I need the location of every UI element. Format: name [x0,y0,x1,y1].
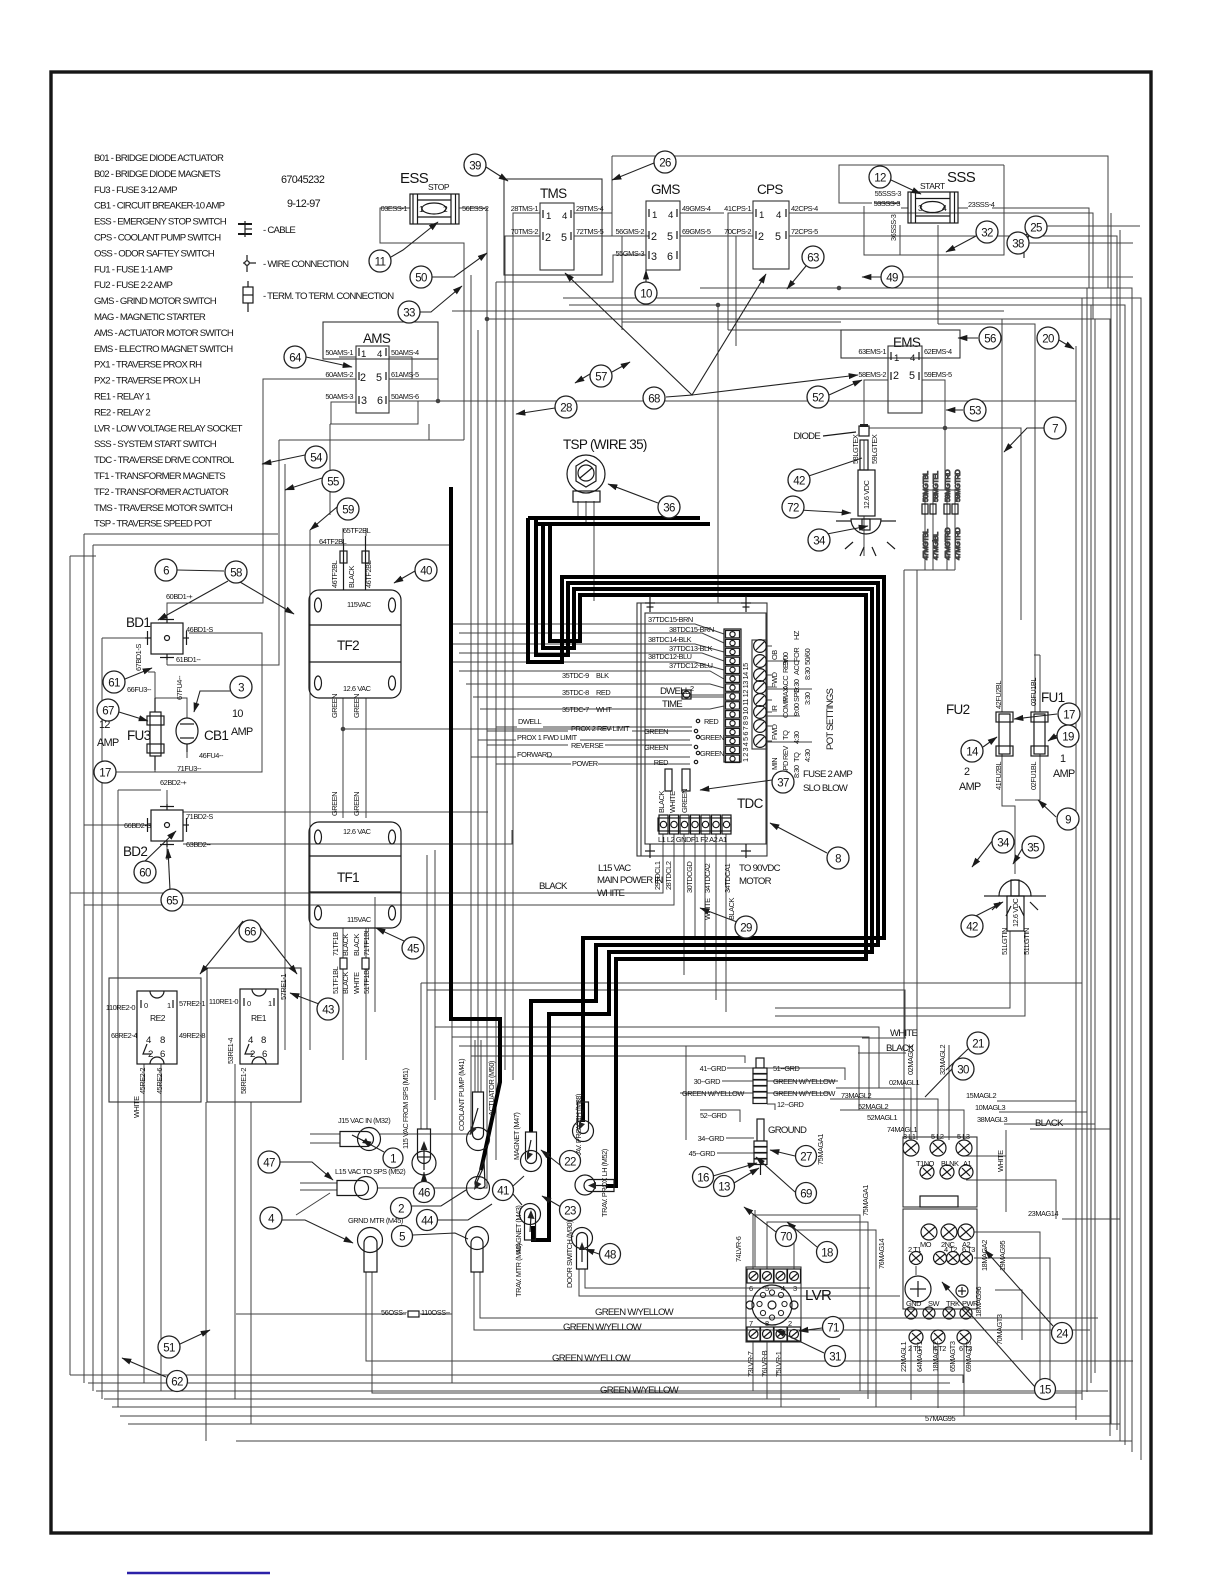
svg-text:42: 42 [966,922,978,934]
svg-text:54: 54 [310,453,323,465]
svg-text:66BD2-S: 66BD2-S [124,821,151,830]
svg-text:69GMS-5: 69GMS-5 [682,227,711,236]
svg-text:MAIN POWER IN: MAIN POWER IN [597,875,663,886]
svg-text:45RE2-2: 45RE2-2 [138,1068,147,1094]
svg-text:GREEN: GREEN [352,694,361,718]
fuse FU1 [1029,678,1075,790]
svg-text:FU3 - FUSE 3-12 AMP: FU3 - FUSE 3-12 AMP [94,185,177,196]
svg-text:POT SETTINGS: POT SETTINGS [825,688,836,750]
TF2 wires [341,528,612,1060]
svg-text:59EMS-5: 59EMS-5 [924,370,952,379]
svg-text:65TF2BL: 65TF2BL [343,526,371,535]
svg-text:22MAGL1: 22MAGL1 [899,1342,908,1372]
svg-text:64TF2BL: 64TF2BL [319,537,347,546]
svg-text:31: 31 [829,1352,841,1364]
switch EMS [841,330,960,413]
cable TSP feed [528,516,700,520]
svg-text:42: 42 [793,476,805,488]
svg-text:6: 6 [377,395,383,407]
svg-text:51TF1BL: 51TF1BL [331,966,340,994]
svg-text:57RE1-1: 57RE1-1 [279,974,288,1000]
svg-text:38TDC15-BRN: 38TDC15-BRN [669,625,714,634]
svg-text:BLACK: BLACK [341,933,350,956]
svg-text:61AMS-5: 61AMS-5 [391,370,419,379]
svg-text:DWELL: DWELL [518,717,542,726]
svg-text:19: 19 [1062,732,1074,744]
relay socket LVR [734,1236,832,1377]
svg-text:110RE1-0: 110RE1-0 [209,997,238,1006]
svg-text:73MAGL2: 73MAGL2 [841,1091,871,1100]
svg-text:- TERM. TO TERM. CONNECTION: - TERM. TO TERM. CONNECTION [263,291,394,302]
svg-text:5: 5 [909,370,915,382]
svg-text:56GMS-2: 56GMS-2 [616,227,645,236]
svg-text:35TDC-7: 35TDC-7 [562,705,589,714]
switch GMS [616,182,711,270]
wire CPS leads [728,213,753,330]
svg-text:24: 24 [1056,1329,1069,1341]
svg-text:41CPS-1: 41CPS-1 [724,204,751,213]
svg-text:1: 1 [546,211,551,222]
svg-text:DIODE: DIODE [793,431,820,442]
svg-text:69MAGT3: 69MAGT3 [964,1341,973,1372]
svg-text:GRND MTR (M45): GRND MTR (M45) [348,1216,403,1225]
svg-text:BLNK: BLNK [941,1159,959,1168]
svg-text:GREEN: GREEN [644,727,668,736]
svg-text:POWER: POWER [572,759,598,768]
svg-text:RED: RED [596,688,610,697]
svg-text:CB1 - CIRCUIT BREAKER-10 AMP: CB1 - CIRCUIT BREAKER-10 AMP [94,201,225,212]
wire ESS leads [380,208,464,440]
svg-text:47MGlBL: 47MGlBL [931,532,940,560]
svg-text:35: 35 [1027,843,1039,855]
bottom terminal strip [658,815,731,834]
svg-text:B02 - BRIDGE DIODE MAGNETS: B02 - BRIDGE DIODE MAGNETS [94,169,220,180]
svg-text:1: 1 [390,1154,396,1166]
svg-text:46: 46 [418,1188,430,1200]
svg-text:20: 20 [1042,334,1054,346]
svg-text:69: 69 [800,1189,812,1201]
svg-text:30: 30 [957,1065,969,1077]
transformer TF1 [309,792,401,994]
svg-text:38TDC14-BLK: 38TDC14-BLK [648,635,692,644]
svg-text:TQ: TQ [792,752,801,762]
diode under EMS [793,424,869,442]
svg-text:67045232: 67045232 [281,174,325,186]
svg-text:TF1 - TRANSFORMER MAGNETS: TF1 - TRANSFORMER MAGNETS [94,471,225,482]
svg-text:2: 2 [758,231,764,243]
TDC control TDC [517,596,852,920]
svg-text:TF1: TF1 [337,870,359,885]
svg-text:GREEN: GREEN [352,792,361,816]
svg-text:70TMS-2: 70TMS-2 [511,227,539,236]
svg-text:41: 41 [497,1186,509,1198]
svg-text:47: 47 [263,1158,275,1170]
svg-text:GREEN W/YELLOW: GREEN W/YELLOW [773,1077,835,1086]
svg-text:55: 55 [327,477,339,489]
svg-text:18MAGA2: 18MAGA2 [980,1240,989,1271]
svg-text:47MGTBL: 47MGTBL [921,529,930,560]
svg-text:WHITE: WHITE [597,888,625,899]
svg-text:TIME: TIME [662,699,682,710]
svg-text:72: 72 [787,503,799,515]
svg-text:60: 60 [139,868,151,880]
svg-text:FORWARD: FORWARD [517,750,552,759]
external control labels [517,717,630,768]
svg-text:1: 1 [759,210,764,221]
svg-text:GREEN: GREEN [680,789,689,813]
svg-text:55GMS-3: 55GMS-3 [616,249,645,258]
svg-text:65: 65 [166,896,178,908]
svg-text:50AMS-3: 50AMS-3 [325,392,353,401]
svg-text:58MGTEL: 58MGTEL [931,471,940,502]
lamp1 wires [863,516,865,556]
svg-text:59MGTRD: 59MGTRD [953,470,962,502]
svg-text:3: 3 [793,1284,797,1293]
svg-text:TMS - TRAVERSE MOTOR SWITCH: TMS - TRAVERSE MOTOR SWITCH [94,503,233,514]
svg-text:63: 63 [807,253,819,265]
svg-text:59LGTEX: 59LGTEX [870,434,879,464]
FU1 FU2 wires [775,655,1040,1016]
svg-text:GREEN W/YELLOW: GREEN W/YELLOW [552,1353,632,1364]
svg-text:71TF1B: 71TF1B [331,932,340,956]
svg-text:WHITE: WHITE [890,1028,918,1039]
svg-text:45--GRD: 45--GRD [689,1149,716,1158]
svg-text:3: 3 [361,395,367,407]
svg-text:DOOR SWITCH (M30): DOOR SWITCH (M30) [565,1221,574,1288]
svg-text:GREEN W/YELLOW: GREEN W/YELLOW [600,1385,680,1396]
svg-text:- WIRE CONNECTION: - WIRE CONNECTION [263,259,349,270]
svg-text:TRAV. MTR (M40): TRAV. MTR (M40) [514,1244,523,1297]
pot column [752,640,767,749]
svg-text:26: 26 [659,158,671,170]
svg-text:TRAV. PROX LH (M52): TRAV. PROX LH (M52) [600,1149,609,1217]
svg-text:TO 90VDC: TO 90VDC [739,863,781,874]
svg-text:4:30: 4:30 [792,731,801,744]
svg-text:41FU2BL: 41FU2BL [994,762,1003,790]
long right buses [700,288,1132,1452]
connector 115 VAC FROM SPS (M51) [401,1068,436,1175]
svg-text:56: 56 [984,334,996,346]
svg-text:28TMS-1: 28TMS-1 [511,204,539,213]
svg-text:34: 34 [813,536,826,548]
svg-text:GROUND: GROUND [768,1125,807,1136]
svg-text:GREEN W/YELLOW: GREEN W/YELLOW [563,1322,643,1333]
svg-text:HZ: HZ [792,630,801,640]
svg-text:30--GRD: 30--GRD [694,1077,721,1086]
svg-text:58: 58 [230,568,242,580]
svg-text:02MAGL1: 02MAGL1 [906,1045,915,1075]
svg-text:18MAGT2: 18MAGT2 [931,1341,940,1372]
svg-text:1: 1 [167,1001,171,1010]
svg-text:50AMS-4: 50AMS-4 [391,348,419,357]
svg-text:WHITE: WHITE [996,1150,1005,1172]
svg-text:03FU1BL: 03FU1BL [1029,678,1038,706]
svg-text:2: 2 [690,684,694,693]
svg-text:43: 43 [322,1005,334,1017]
svg-text:6 T3: 6 T3 [962,1245,975,1254]
circuit breaker CB1 [176,708,253,760]
svg-text:10: 10 [232,708,243,720]
pot settings labels (rotated) [770,630,836,778]
svg-text:10MAGL3: 10MAGL3 [975,1103,1005,1112]
svg-text:WHT: WHT [596,705,612,714]
svg-text:70: 70 [780,1232,792,1244]
cable magnet M47 [531,518,878,1132]
svg-text:WHITE: WHITE [703,898,712,920]
wire connection legend symbol [243,255,256,272]
svg-text:FU3: FU3 [127,728,151,743]
svg-text:15MAGL2: 15MAGL2 [966,1091,996,1100]
svg-text:CPS - COOLANT PUMP SWITCH: CPS - COOLANT PUMP SWITCH [94,233,221,244]
switch SSS [874,169,995,241]
svg-text:57MAG95: 57MAG95 [925,1414,955,1423]
svg-text:FWD: FWD [770,672,779,688]
svg-text:64: 64 [289,353,302,365]
svg-text:12.6 VAC: 12.6 VAC [343,827,372,836]
svg-text:1 2 3 4 5 6 7 8 9 10 11 12 13: 1 2 3 4 5 6 7 8 9 10 11 12 13 14 15 [741,663,750,762]
svg-text:0: 0 [247,999,251,1008]
EMS wires [864,380,1021,1137]
potentiometer TSP [563,437,647,502]
svg-text:67BD1-S: 67BD1-S [134,644,143,671]
svg-text:37TDC12-BLU: 37TDC12-BLU [669,661,713,670]
svg-text:36: 36 [663,503,675,515]
svg-text:COOLANT PUMP (M41): COOLANT PUMP (M41) [457,1059,466,1131]
svg-text:MOTOR: MOTOR [739,876,772,887]
svg-text:A1: A1 [963,1159,971,1168]
svg-text:17: 17 [99,768,111,780]
svg-text:MIN: MIN [770,758,779,770]
svg-text:72TMS-5: 72TMS-5 [576,227,604,236]
LED indicators [644,717,724,767]
svg-text:115VAC: 115VAC [347,915,372,924]
svg-text:48: 48 [604,1250,616,1262]
svg-text:SW: SW [928,1299,939,1308]
svg-text:MAGNET (M47): MAGNET (M47) [512,1113,521,1160]
svg-text:50MGTBL: 50MGTBL [921,471,930,502]
switch AMS [323,322,438,413]
svg-text:GMS - GRIND MOTOR SWITCH: GMS - GRIND MOTOR SWITCH [94,296,217,307]
svg-text:32: 32 [981,228,993,240]
svg-text:SPD: SPD [792,688,801,702]
svg-text:49GMS-4: 49GMS-4 [682,204,711,213]
svg-text:GMS: GMS [651,182,680,197]
svg-text:6: 6 [667,251,673,263]
svg-text:FU2: FU2 [946,702,970,717]
svg-text:GREEN: GREEN [644,743,668,752]
svg-text:6: 6 [160,1049,165,1060]
svg-text:8:30: 8:30 [792,765,801,778]
svg-text:34TDCA1: 34TDCA1 [723,863,732,893]
svg-text:FUSE 2 AMP: FUSE 2 AMP [803,769,852,780]
connector TRAV. PROX LH (M52) [575,1149,614,1217]
svg-text:34TDCA2: 34TDCA2 [703,863,712,893]
svg-text:13: 13 [718,1182,730,1194]
svg-text:29: 29 [740,923,752,935]
svg-text:40: 40 [420,566,432,578]
connector TRAV. PROX RH (M38) [573,1094,594,1163]
svg-text:B01 - BRIDGE DIODE ACTUATOR: B01 - BRIDGE DIODE ACTUATOR [94,153,224,164]
svg-text:AMP: AMP [231,726,253,738]
svg-text:74LVR-6: 74LVR-6 [734,1236,743,1262]
svg-text:59MGTRD: 59MGTRD [943,470,952,502]
svg-text:34: 34 [997,838,1010,850]
svg-text:34--GRD: 34--GRD [698,1134,725,1143]
svg-text:71TF1BL: 71TF1BL [362,928,371,956]
svg-text:12.6 VDC: 12.6 VDC [1011,897,1020,927]
svg-text:TF2 - TRANSFORMER ACTUATOR: TF2 - TRANSFORMER ACTUATOR [94,487,229,498]
svg-text:SLO BLOW: SLO BLOW [803,783,849,794]
bus lines above MAG [421,850,1082,1140]
svg-text:60AMS-2: 60AMS-2 [325,370,353,379]
svg-text:PX1 - TRAVERSE PROX RH: PX1 - TRAVERSE PROX RH [94,360,202,371]
switch CPS [724,182,818,269]
svg-text:35TDC-9: 35TDC-9 [562,671,589,680]
svg-text:RE2: RE2 [150,1013,166,1023]
svg-text:52MAGL1: 52MAGL1 [867,1113,897,1122]
svg-text:76MAG14: 76MAG14 [877,1239,886,1269]
svg-text:66: 66 [244,927,256,939]
svg-text:MO: MO [920,1240,932,1249]
svg-text:23SSS-4: 23SSS-4 [968,200,995,209]
terminal strip vertical [724,629,750,763]
svg-text:68: 68 [648,394,660,406]
svg-text:TMS: TMS [540,186,567,201]
svg-text:5: 5 [399,1232,405,1244]
balloon leader arrows [119,163,1133,1387]
svg-text:65MAGT3: 65MAGT3 [948,1341,957,1372]
svg-text:8:30: 8:30 [803,667,812,680]
svg-text:REV: REV [781,659,790,673]
terminal to terminal legend symbol [243,281,253,312]
svg-text:4:30: 4:30 [803,749,812,762]
svg-text:71BD2-S: 71BD2-S [186,812,213,821]
svg-text:AMS: AMS [363,331,391,346]
wire SSS box [839,165,1004,203]
svg-text:TDC: TDC [737,796,764,811]
svg-text:47MGTRD: 47MGTRD [943,528,952,560]
svg-text:CPS: CPS [757,182,783,197]
svg-text:61BD1--: 61BD1-- [176,655,201,664]
svg-text:WHITE: WHITE [132,1096,141,1118]
svg-text:8: 8 [835,854,841,866]
svg-text:47MGTRD: 47MGTRD [953,528,962,560]
svg-text:LVR: LVR [805,1287,832,1304]
fuse FU2 [946,681,1013,793]
right margin long verticals [1002,213,1120,1441]
svg-text:GREEN W/YELLOW: GREEN W/YELLOW [595,1307,675,1318]
TDC left wires [452,624,724,764]
svg-text:110OSS--: 110OSS-- [421,1308,451,1317]
svg-text:29TMS-4: 29TMS-4 [576,204,604,213]
svg-text:4 T2: 4 T2 [944,1245,957,1254]
svg-text:TQ: TQ [781,730,790,740]
svg-text:GREEN W/YELLOW: GREEN W/YELLOW [682,1089,744,1098]
fuse FU3 [97,685,202,773]
svg-text:64MAGT1: 64MAGT1 [915,1341,924,1372]
svg-text:18MAG96: 18MAG96 [974,1287,983,1317]
svg-text:5 L2: 5 L2 [931,1132,944,1141]
svg-text:WHITE: WHITE [352,972,361,994]
svg-text:02FU1BL: 02FU1BL [1029,762,1038,790]
svg-text:ESS - EMERGENY STOP SWITCH: ESS - EMERGENY STOP SWITCH [94,217,227,228]
svg-text:38: 38 [1012,239,1024,251]
svg-text:2: 2 [360,372,366,384]
svg-text:FU1 - FUSE 1-1 AMP: FU1 - FUSE 1-1 AMP [94,264,173,275]
svg-text:46BD1-S: 46BD1-S [186,625,213,634]
svg-text:76LVR-B: 76LVR-B [760,1350,769,1377]
svg-text:EMS: EMS [893,335,921,350]
svg-text:30TDCGD: 30TDCGD [685,862,694,893]
svg-text:22: 22 [564,1157,576,1169]
svg-text:BLACK: BLACK [341,971,350,994]
relay RE2 [106,978,205,1118]
bottom long horizontals [70,1064,1132,1441]
svg-text:GREEN: GREEN [700,733,724,742]
OSS terminal [381,1308,451,1317]
svg-text:BLACK: BLACK [727,897,736,920]
svg-text:74MAGL1: 74MAGL1 [887,1125,917,1134]
bridge diode BD1 [126,592,213,700]
svg-text:PX2 - TRAVERSE PROX LH: PX2 - TRAVERSE PROX LH [94,376,201,387]
svg-text:2: 2 [964,766,970,778]
svg-text:GREEN: GREEN [330,792,339,816]
connector TRAV. MTR (M40) [466,1227,524,1298]
connector 115 VAC IN (M32) [338,1116,390,1151]
svg-text:49: 49 [886,273,898,285]
svg-text:59: 59 [342,505,354,517]
balloon number circles [94,151,1080,1400]
fuse rects [665,769,672,791]
cable legend symbol [238,221,252,237]
svg-text:62EMS-4: 62EMS-4 [924,347,952,356]
svg-text:PROX 1 FWD LIMIT: PROX 1 FWD LIMIT [517,733,578,742]
svg-text:RE1 - RELAY 1: RE1 - RELAY 1 [94,392,150,403]
svg-text:45RE2-6: 45RE2-6 [155,1068,164,1094]
switch TMS [504,179,604,275]
svg-text:02MAGL1: 02MAGL1 [889,1078,919,1087]
svg-text:52--GRD: 52--GRD [700,1111,727,1120]
svg-text:11: 11 [375,257,386,269]
svg-text:BLACK: BLACK [539,881,568,892]
svg-text:2: 2 [651,231,657,243]
mid long verticals from top row [378,208,513,1383]
svg-text:75MAGA1: 75MAGA1 [816,1134,825,1165]
svg-text:9-12-97: 9-12-97 [287,198,321,210]
left margin verticals [70,534,453,1407]
svg-text:44: 44 [421,1216,434,1228]
svg-text:7: 7 [1052,424,1058,436]
svg-text:115 VAC FROM SPS (M51): 115 VAC FROM SPS (M51) [401,1068,410,1149]
svg-text:51--GRD: 51--GRD [773,1064,800,1073]
svg-text:REV: REV [781,746,790,760]
svg-text:BLACK: BLACK [352,933,361,956]
svg-text:2: 2 [398,1204,404,1216]
LVR wires [753,1210,876,1407]
svg-text:WHITE: WHITE [668,791,677,813]
svg-text:71FU3--: 71FU3-- [177,764,202,773]
svg-text:RE1: RE1 [251,1013,267,1023]
svg-text:5: 5 [667,231,673,243]
svg-text:42FU2BL: 42FU2BL [994,681,1003,709]
svg-text:52MAGL2: 52MAGL2 [858,1102,888,1111]
svg-text:50AMS-1: 50AMS-1 [325,348,353,357]
svg-text:23MAG14: 23MAG14 [1028,1209,1058,1218]
svg-text:53RE1-4: 53RE1-4 [226,1038,235,1064]
svg-text:58EMS-2: 58EMS-2 [858,370,886,379]
svg-text:GREEN: GREEN [700,749,724,758]
ground stud 1 [682,1058,835,1120]
